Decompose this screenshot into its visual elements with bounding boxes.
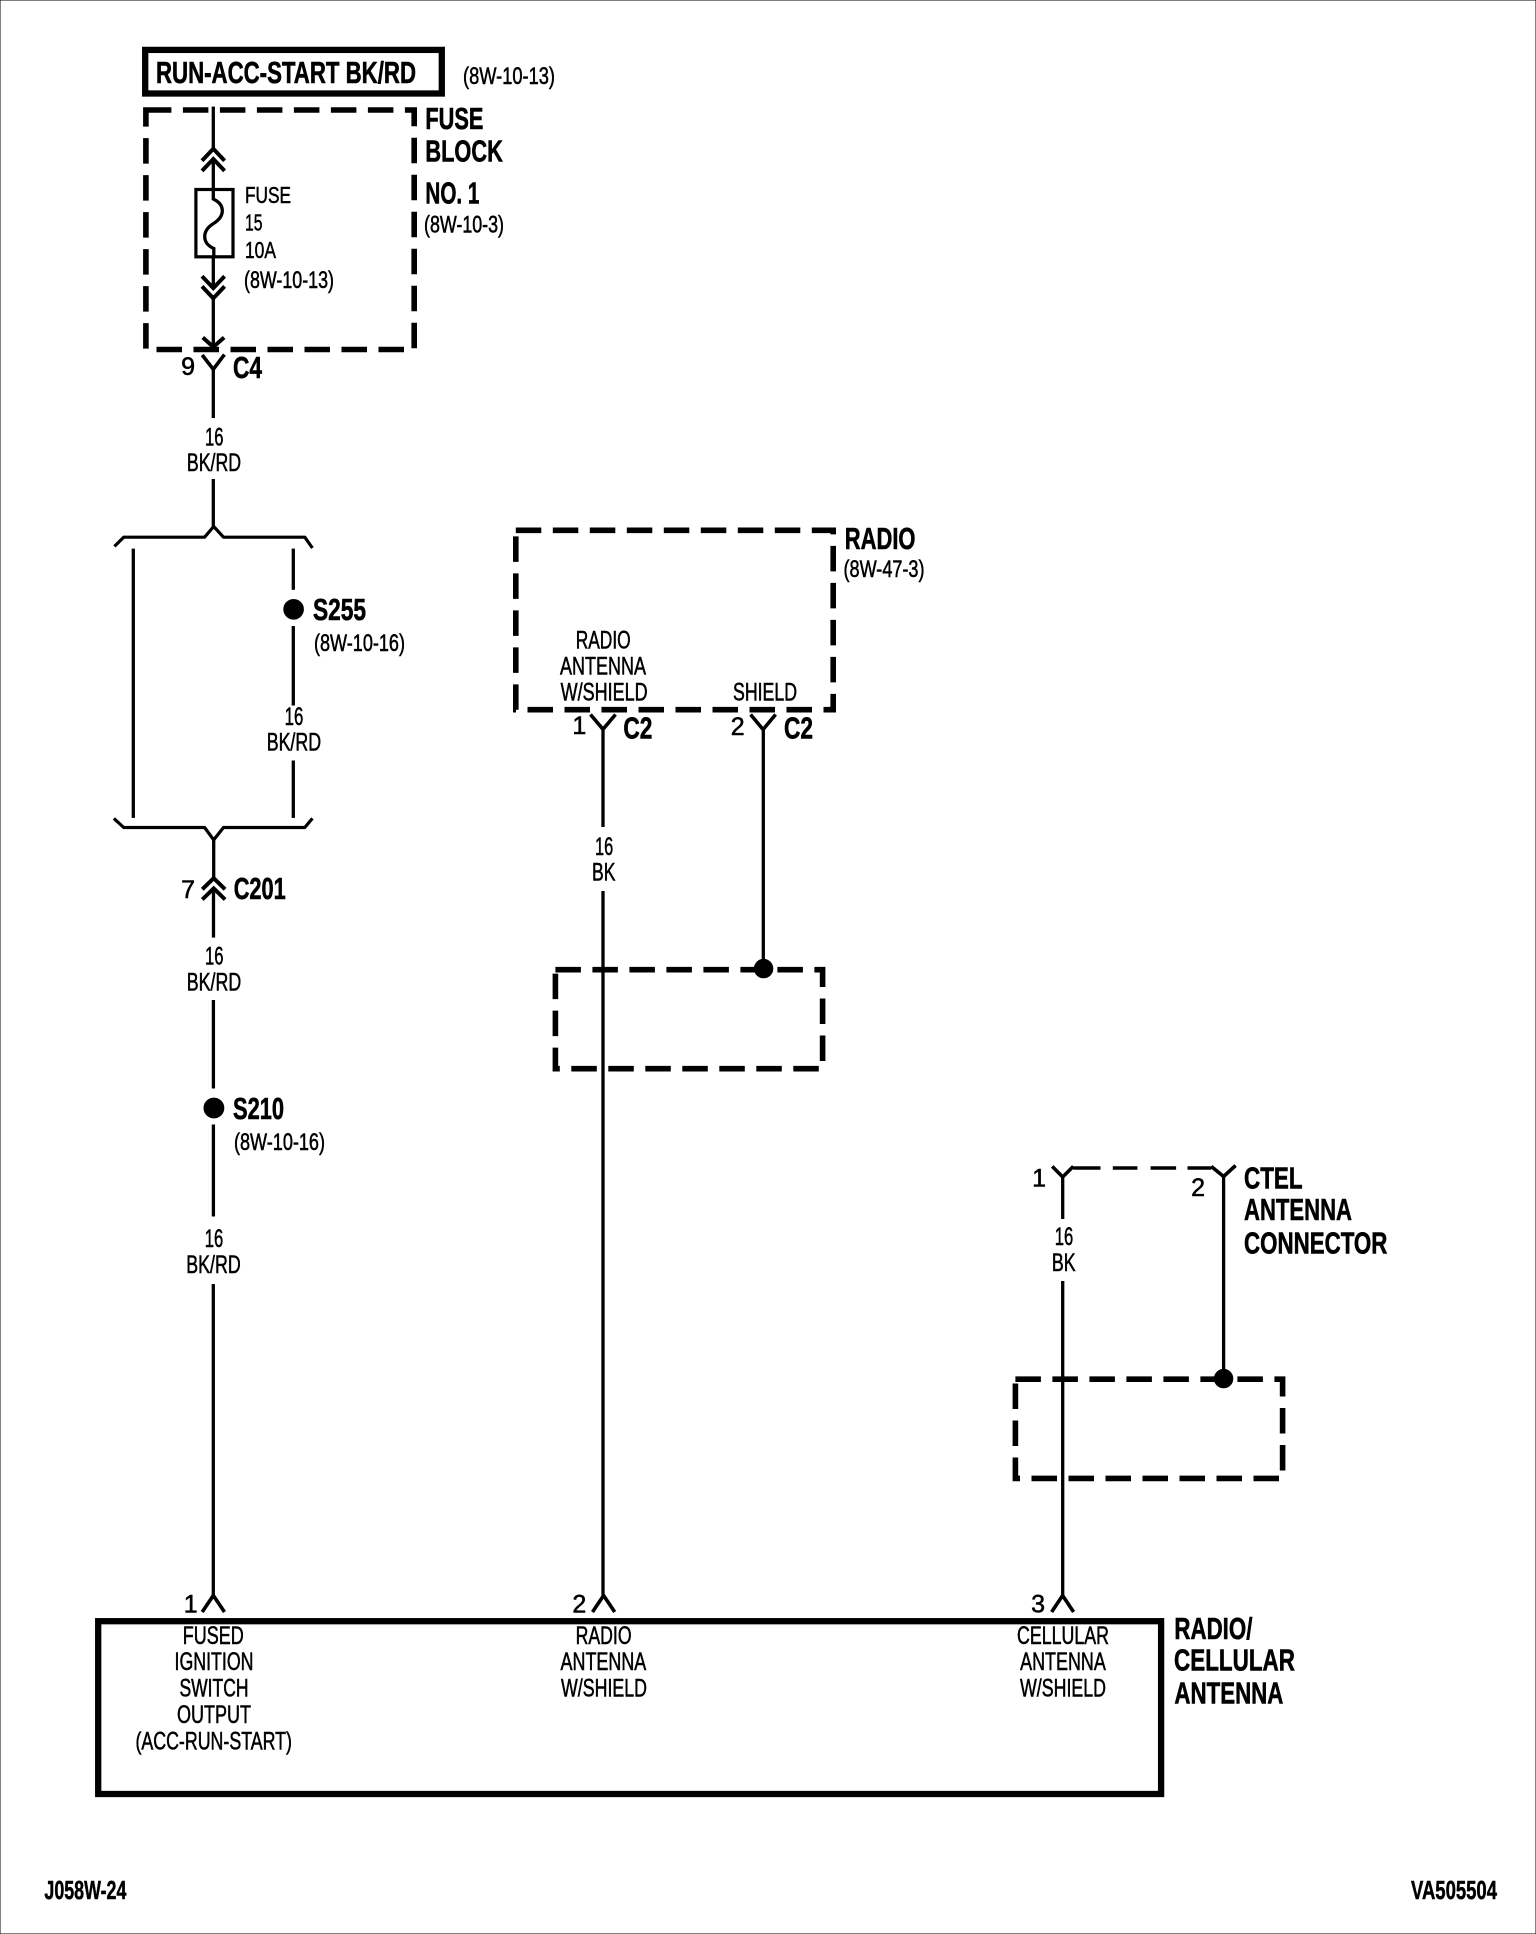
svg-text:RUN-ACC-START BK/RD: RUN-ACC-START BK/RD xyxy=(156,55,416,90)
connector C2 pin 1 female half xyxy=(591,715,616,730)
splice bus bottom brace xyxy=(114,818,313,840)
svg-text:C2: C2 xyxy=(784,710,813,745)
svg-text:2: 2 xyxy=(572,1590,586,1618)
svg-text:3: 3 xyxy=(1031,1590,1045,1618)
svg-text:16: 16 xyxy=(1055,1223,1074,1251)
ctel junction dot xyxy=(1214,1369,1232,1387)
svg-text:16: 16 xyxy=(285,703,304,731)
pin 3 connector at antenna box xyxy=(1052,1596,1074,1613)
svg-text:FUSE: FUSE xyxy=(425,101,483,136)
svg-text:16: 16 xyxy=(595,833,613,861)
svg-text:W/SHIELD: W/SHIELD xyxy=(561,678,648,706)
ctel shield dashed box xyxy=(1015,1379,1282,1478)
wire right branch lower xyxy=(292,761,295,818)
pin 1 connector at antenna box xyxy=(202,1596,224,1613)
svg-text:BK: BK xyxy=(1052,1249,1076,1277)
ctel antenna connector pin 1 xyxy=(1052,1166,1073,1177)
svg-text:FUSED: FUSED xyxy=(183,1622,244,1650)
splice bus top brace xyxy=(114,527,312,549)
ctel antenna connector pin 2 xyxy=(1211,1166,1235,1177)
svg-text:2: 2 xyxy=(731,713,745,741)
pin 2 connector at antenna box xyxy=(593,1596,615,1613)
svg-text:2: 2 xyxy=(1191,1174,1205,1202)
svg-text:BK: BK xyxy=(592,859,616,887)
radio/cellular antenna solid box xyxy=(98,1621,1161,1794)
svg-text:RADIO/: RADIO/ xyxy=(1174,1611,1252,1646)
svg-text:CELLULAR: CELLULAR xyxy=(1017,1622,1109,1650)
svg-text:SHIELD: SHIELD xyxy=(733,678,797,706)
node label box RUN-ACC-START BK/RD xyxy=(145,50,442,94)
svg-text:RADIO: RADIO xyxy=(576,627,631,655)
svg-text:ANTENNA: ANTENNA xyxy=(1174,1675,1283,1710)
svg-text:(8W-10-13): (8W-10-13) xyxy=(463,63,555,90)
svg-text:7: 7 xyxy=(181,876,195,904)
wire right branch upper xyxy=(292,549,295,590)
wire ctel pin 1 lower to pin 3 xyxy=(1061,1281,1064,1596)
wire below C201 xyxy=(212,890,215,938)
wire right branch below splice xyxy=(292,626,295,706)
svg-text:CONNECTOR: CONNECTOR xyxy=(1244,1226,1387,1261)
svg-text:ANTENNA: ANTENNA xyxy=(561,1648,647,1676)
svg-text:NO. 1: NO. 1 xyxy=(425,176,479,211)
wire shield from C2 pin 2 xyxy=(762,730,765,960)
svg-text:C2: C2 xyxy=(623,710,652,745)
wire inside fuse block from top edge to fuse xyxy=(212,107,215,149)
svg-text:RADIO: RADIO xyxy=(845,521,916,556)
svg-text:ANTENNA: ANTENNA xyxy=(560,653,646,681)
connector C2 pin 2 female half xyxy=(751,715,776,730)
splice S210 xyxy=(204,1098,224,1118)
svg-text:(8W-10-3): (8W-10-3) xyxy=(424,212,504,239)
svg-text:(8W-47-3): (8W-47-3) xyxy=(844,556,925,583)
wire radio antenna upper xyxy=(601,729,604,827)
wire radio antenna lower to pin 2 xyxy=(601,891,604,1596)
splice S255 xyxy=(284,600,304,620)
svg-text:16: 16 xyxy=(205,943,224,971)
connector C201 male chevrons xyxy=(202,878,225,889)
long wire to pin 1 of radio/cellular antenna xyxy=(212,1284,215,1596)
wire below S210 xyxy=(212,1125,215,1217)
wire ctel pin 1 upper xyxy=(1061,1177,1064,1219)
svg-text:16: 16 xyxy=(205,1225,224,1253)
radio dashed box xyxy=(516,530,833,709)
svg-text:CELLULAR: CELLULAR xyxy=(1174,1642,1295,1677)
svg-text:C201: C201 xyxy=(234,871,286,906)
svg-text:(8W-10-16): (8W-10-16) xyxy=(234,1129,325,1156)
svg-text:ANTENNA: ANTENNA xyxy=(1020,1648,1106,1676)
svg-text:10A: 10A xyxy=(245,237,276,263)
svg-text:(8W-10-16): (8W-10-16) xyxy=(314,630,405,657)
svg-text:SWITCH: SWITCH xyxy=(180,1674,249,1702)
in-line connector chevrons (up) xyxy=(202,149,225,161)
svg-text:1: 1 xyxy=(572,712,586,740)
svg-text:W/SHIELD: W/SHIELD xyxy=(561,1674,647,1702)
wire down to splice bus xyxy=(212,479,215,528)
svg-text:IGNITION: IGNITION xyxy=(175,1648,254,1676)
in-line connector chevrons (down) xyxy=(202,276,225,288)
wire ctel pin 2 xyxy=(1222,1177,1225,1370)
wire down to S210 xyxy=(212,1000,215,1089)
svg-text:RADIO: RADIO xyxy=(576,1622,632,1650)
svg-text:C4: C4 xyxy=(233,350,263,385)
svg-text:VA505504: VA505504 xyxy=(1411,1875,1497,1905)
svg-text:S255: S255 xyxy=(313,592,366,627)
svg-text:FUSE: FUSE xyxy=(245,182,291,208)
connector C4 female half xyxy=(202,355,224,370)
svg-text:S210: S210 xyxy=(233,1091,284,1126)
wire below fuse to block edge xyxy=(212,257,215,288)
dashed link between ctel pins xyxy=(1073,1166,1100,1169)
svg-text:J058W-24: J058W-24 xyxy=(44,1875,126,1905)
fuse block no. 1 dashed box xyxy=(146,110,414,350)
svg-text:(8W-10-13): (8W-10-13) xyxy=(244,267,334,294)
svg-text:BK/RD: BK/RD xyxy=(267,729,321,757)
wire below C4 xyxy=(212,369,215,418)
svg-text:ANTENNA: ANTENNA xyxy=(1244,1192,1352,1227)
svg-text:(ACC-RUN-START): (ACC-RUN-START) xyxy=(135,1728,292,1756)
wire left branch xyxy=(132,549,135,818)
svg-text:OUTPUT: OUTPUT xyxy=(177,1701,251,1729)
fuse element S-curve xyxy=(205,190,223,258)
svg-text:BLOCK: BLOCK xyxy=(425,134,503,169)
svg-text:1: 1 xyxy=(1032,1165,1046,1193)
male arrow at fuse block exit xyxy=(203,338,224,348)
svg-text:16: 16 xyxy=(205,424,224,452)
svg-text:1: 1 xyxy=(184,1590,198,1618)
svg-text:BK/RD: BK/RD xyxy=(187,969,241,997)
svg-text:BK/RD: BK/RD xyxy=(187,449,241,477)
svg-text:BK/RD: BK/RD xyxy=(186,1251,240,1279)
fuse 15 box xyxy=(196,190,233,257)
svg-text:15: 15 xyxy=(245,210,263,236)
shield junction dot xyxy=(754,959,772,977)
svg-text:CTEL: CTEL xyxy=(1244,1161,1303,1196)
wire from bus to C201 xyxy=(212,840,215,878)
svg-text:W/SHIELD: W/SHIELD xyxy=(1020,1674,1106,1702)
shield dashed box xyxy=(555,970,822,1069)
svg-text:9: 9 xyxy=(181,353,195,381)
